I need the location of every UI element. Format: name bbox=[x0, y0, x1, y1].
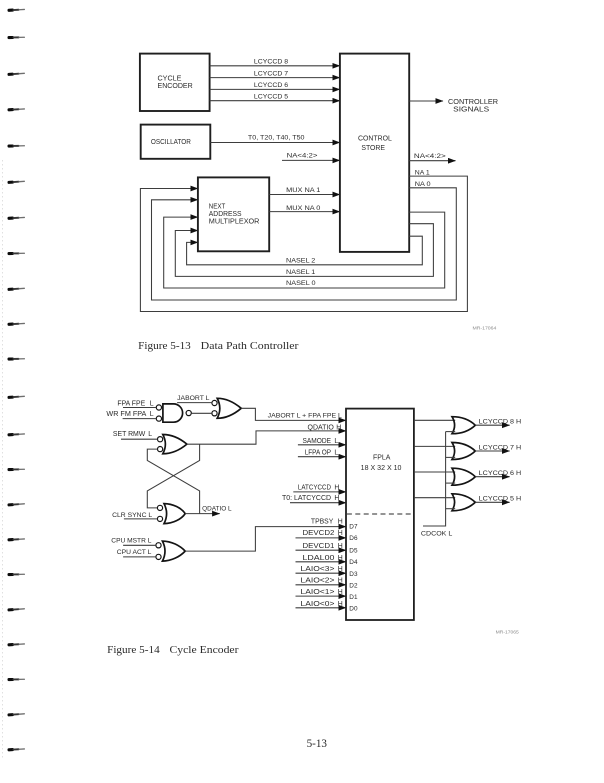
wire LCYCCD 8 bbox=[210, 59, 340, 66]
node NASEL 2 bbox=[286, 257, 316, 264]
wire TPBSY H net bbox=[185, 518, 346, 551]
wire LCYCCD 5 H bbox=[475, 496, 521, 503]
node NASEL 0 bbox=[286, 280, 316, 287]
wire CDCOK L net bbox=[421, 432, 455, 538]
pin D4 bbox=[349, 559, 358, 566]
svg-text:H: H bbox=[338, 566, 343, 573]
wire WR FM FPA L bbox=[106, 411, 156, 419]
svg-text:D7: D7 bbox=[349, 524, 358, 531]
svg-text:QDATIO: QDATIO bbox=[308, 425, 335, 432]
svg-text:STORE: STORE bbox=[361, 143, 385, 152]
svg-text:L: L bbox=[334, 438, 338, 445]
svg-text:D6: D6 bbox=[349, 535, 358, 542]
svg-text:NA<4:2>: NA<4:2> bbox=[287, 153, 318, 160]
svg-text:JABORT L: JABORT L bbox=[177, 395, 210, 402]
svg-text:Figure 5-14: Figure 5-14 bbox=[107, 645, 160, 656]
pin D0 bbox=[349, 606, 358, 613]
wire FPLA output D8 bbox=[414, 419, 455, 421]
block CYCLE ENCODER bbox=[140, 54, 210, 111]
svg-text:L: L bbox=[150, 411, 154, 418]
wire NA<4:2> input bbox=[282, 153, 340, 161]
svg-text:LAIO<0>: LAIO<0> bbox=[301, 601, 335, 608]
gate U7 OR output LCYCCD 7 H bbox=[452, 443, 475, 460]
svg-text:LCYCCD 6: LCYCCD 6 bbox=[254, 82, 288, 89]
wire NA 0 feedback bbox=[152, 181, 457, 300]
svg-text:CDCOK L: CDCOK L bbox=[421, 530, 453, 537]
svg-text:Data Path Controller: Data Path Controller bbox=[201, 341, 299, 352]
svg-text:H: H bbox=[334, 495, 339, 502]
wire LAIO<1> H bbox=[296, 589, 347, 596]
svg-text:CPU MSTR L: CPU MSTR L bbox=[111, 537, 151, 544]
wire MUX NA 1 bbox=[269, 187, 340, 194]
svg-text:LFPA OP: LFPA OP bbox=[305, 450, 332, 457]
pin D1 bbox=[349, 594, 358, 601]
wire T0: LATCYCCD H bbox=[282, 495, 346, 503]
wire NASEL 0 loop feedback bbox=[164, 212, 445, 288]
svg-text:CPU ACT L: CPU ACT L bbox=[117, 549, 152, 556]
page number 5-13 bbox=[307, 738, 328, 750]
svg-text:CONTROLLER: CONTROLLER bbox=[448, 99, 498, 106]
wire LCYCCD 7 bbox=[210, 70, 340, 77]
svg-text:LCYCCD 6 H: LCYCCD 6 H bbox=[479, 470, 522, 477]
wire U3 out cross to U4 input bbox=[147, 444, 199, 508]
svg-text:MULTIPLEXOR: MULTIPLEXOR bbox=[209, 217, 260, 226]
svg-text:NASEL 0: NASEL 0 bbox=[286, 280, 316, 287]
block CONTROL STORE bbox=[340, 54, 409, 252]
svg-text:L: L bbox=[148, 431, 152, 438]
svg-text:L: L bbox=[334, 450, 338, 457]
wire LCYCCD 6 bbox=[210, 82, 340, 89]
svg-text:NASEL 1: NASEL 1 bbox=[286, 269, 316, 276]
svg-text:D2: D2 bbox=[349, 583, 358, 590]
gate U5 OR bbox=[156, 541, 185, 561]
svg-text:D0: D0 bbox=[349, 606, 358, 613]
svg-text:LCYCCD 5: LCYCCD 5 bbox=[254, 94, 288, 101]
wire LCYCCD 8 H bbox=[475, 419, 521, 426]
wire DEVCD2 H bbox=[296, 530, 347, 538]
caption Figure 5-14 bbox=[107, 645, 239, 656]
wire FPLA output D6 bbox=[414, 471, 455, 473]
block FPLA 18x32x10 bbox=[346, 409, 414, 620]
wire CPU ACT L bbox=[117, 549, 156, 557]
svg-text:H: H bbox=[336, 425, 341, 432]
svg-text:Cycle Encoder: Cycle Encoder bbox=[170, 645, 240, 656]
svg-text:NA<4:2>: NA<4:2> bbox=[414, 153, 446, 160]
wire FPLA output D7 bbox=[414, 445, 455, 447]
wire LAIO<0> H bbox=[296, 601, 347, 608]
svg-text:MUX NA 1: MUX NA 1 bbox=[286, 187, 321, 194]
pin D5 bbox=[349, 548, 358, 555]
svg-text:LAIO<3>: LAIO<3> bbox=[301, 566, 335, 573]
svg-text:LCYCCD 7 H: LCYCCD 7 H bbox=[479, 444, 522, 451]
svg-text:Figure 5-13: Figure 5-13 bbox=[138, 341, 191, 352]
wire CPU MSTR L bbox=[111, 537, 156, 545]
svg-text:T0, T20, T40, T50: T0, T20, T40, T50 bbox=[248, 135, 305, 142]
svg-text:H: H bbox=[338, 578, 343, 585]
svg-text:H: H bbox=[338, 555, 343, 562]
svg-text:L: L bbox=[150, 400, 154, 407]
wire NASEL 2 loop feedback bbox=[187, 236, 423, 265]
wire LFPA OP L bbox=[298, 450, 346, 457]
wire SAMODE L bbox=[298, 438, 346, 445]
wire DEVCD1 H bbox=[296, 543, 347, 550]
svg-text:LATCYCCD: LATCYCCD bbox=[298, 484, 331, 491]
svg-text:D1: D1 bbox=[349, 594, 358, 601]
svg-text:D4: D4 bbox=[349, 559, 358, 566]
wire SET RMW L bbox=[113, 431, 157, 439]
wire JABORT L bbox=[177, 395, 212, 403]
svg-text:QDATIO L: QDATIO L bbox=[202, 505, 232, 512]
svg-text:FPA FPE: FPA FPE bbox=[117, 400, 145, 407]
svg-text:LCYCCD 7: LCYCCD 7 bbox=[254, 70, 288, 77]
svg-text:LCYCCD 8 H: LCYCCD 8 H bbox=[479, 419, 522, 426]
wire NA<4:2> output bbox=[409, 153, 455, 161]
svg-text:LCYCCD 8: LCYCCD 8 bbox=[254, 59, 288, 66]
svg-text:T0: LATCYCCD: T0: LATCYCCD bbox=[282, 495, 331, 502]
svg-text:MUX NA 0: MUX NA 0 bbox=[286, 205, 321, 212]
gate U4 OR bbox=[157, 504, 185, 524]
wire LATCYCCD H bbox=[293, 484, 346, 492]
svg-text:H: H bbox=[338, 601, 343, 608]
svg-text:CONTROL: CONTROL bbox=[358, 133, 392, 142]
wire QDATIO L output bbox=[185, 505, 232, 513]
label MR-17064 bbox=[473, 326, 497, 331]
pin D6 bbox=[349, 535, 358, 542]
block OSCILLATOR bbox=[141, 125, 211, 159]
gate U1 NAND bbox=[156, 404, 191, 422]
wire JABORT L + FPA FPE L bbox=[241, 408, 346, 420]
wire NASEL 1 loop feedback bbox=[175, 224, 433, 277]
svg-text:LCYCCD 5 H: LCYCCD 5 H bbox=[479, 496, 522, 503]
wire LDAL00 H bbox=[296, 555, 347, 562]
svg-text:SIGNALS: SIGNALS bbox=[453, 107, 489, 114]
node NASEL 1 bbox=[286, 269, 316, 276]
wire CLR SYNC L bbox=[112, 512, 157, 519]
label MR-17065 bbox=[496, 630, 520, 635]
svg-text:MR-17064: MR-17064 bbox=[473, 326, 497, 331]
gate U2 OR bbox=[212, 398, 241, 418]
pin D2 bbox=[349, 583, 358, 590]
svg-text:NASEL 2: NASEL 2 bbox=[286, 257, 316, 264]
block NEXT ADDRESS MULTIPLEXOR bbox=[198, 177, 269, 251]
svg-text:JABORT L + FPA FPE L: JABORT L + FPA FPE L bbox=[268, 413, 343, 420]
svg-text:SAMODE: SAMODE bbox=[303, 438, 332, 445]
wire LAIO<2> H bbox=[296, 578, 347, 585]
svg-text:5-13: 5-13 bbox=[307, 738, 328, 750]
svg-text:D3: D3 bbox=[349, 571, 358, 578]
svg-text:DEVCD1: DEVCD1 bbox=[303, 543, 335, 550]
svg-text:MR-17065: MR-17065 bbox=[496, 630, 520, 635]
wire MUX NA 0 bbox=[269, 205, 340, 212]
svg-text:NA 1: NA 1 bbox=[415, 169, 430, 176]
pin D7 bbox=[349, 524, 358, 531]
wire CONTROLLER SIGNALS bbox=[409, 99, 498, 114]
svg-text:LDAL00: LDAL00 bbox=[303, 555, 335, 562]
svg-text:LAIO<2>: LAIO<2> bbox=[301, 578, 335, 585]
svg-text:OSCILLATOR: OSCILLATOR bbox=[151, 137, 191, 146]
wire T0, T20, T40, T50 bbox=[210, 135, 340, 143]
wire FPA FPE L bbox=[117, 400, 156, 407]
wire LAIO<3> H bbox=[296, 566, 347, 573]
svg-text:WR FM FPA: WR FM FPA bbox=[106, 411, 146, 418]
gate U8 OR output LCYCCD 6 H bbox=[452, 468, 475, 485]
svg-text:ENCODER: ENCODER bbox=[158, 81, 194, 90]
wire LCYCCD 7 H bbox=[475, 444, 521, 451]
pin D3 bbox=[349, 571, 358, 578]
svg-text:SET RMW: SET RMW bbox=[113, 431, 146, 438]
gate U3 OR bbox=[158, 435, 187, 454]
svg-text:NA 0: NA 0 bbox=[415, 181, 431, 188]
svg-text:18 X 32 X 10: 18 X 32 X 10 bbox=[361, 465, 402, 472]
svg-text:DEVCD2: DEVCD2 bbox=[303, 530, 335, 537]
caption Figure 5-13 bbox=[138, 341, 299, 352]
svg-text:H: H bbox=[338, 530, 343, 537]
wire U4 out cross to U3 input bbox=[147, 449, 199, 513]
svg-text:FPLA: FPLA bbox=[373, 453, 390, 462]
svg-text:H: H bbox=[338, 543, 343, 550]
wire QDATIO H net bbox=[187, 425, 346, 445]
spiral binding marks bbox=[3, 8, 26, 760]
svg-text:TPBSY: TPBSY bbox=[311, 518, 334, 525]
svg-text:H: H bbox=[334, 484, 339, 491]
wire LCYCCD 5 bbox=[210, 94, 340, 101]
dashed separator inside FPLA bbox=[347, 513, 413, 515]
wire FPLA output D5 bbox=[414, 497, 455, 499]
svg-text:CLR SYNC L: CLR SYNC L bbox=[112, 512, 152, 519]
gate U6 OR output LCYCCD 8 H bbox=[452, 417, 475, 434]
wire U1 out to U2 bbox=[191, 412, 212, 414]
svg-text:D5: D5 bbox=[349, 548, 358, 555]
svg-text:H: H bbox=[338, 518, 343, 525]
wire LCYCCD 6 H bbox=[475, 470, 521, 477]
gate U9 OR output LCYCCD 5 H bbox=[452, 494, 475, 511]
wire NA 1 feedback bbox=[140, 169, 467, 311]
svg-text:H: H bbox=[338, 589, 343, 596]
svg-text:LAIO<1>: LAIO<1> bbox=[301, 589, 335, 596]
